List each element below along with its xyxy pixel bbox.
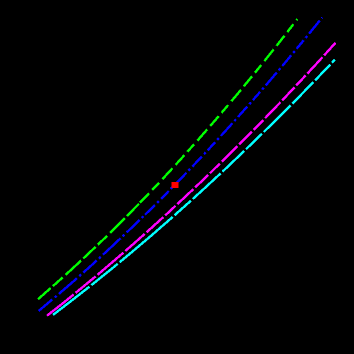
blue dash-dot model curve (upper segment): [145, 18, 322, 215]
red data point marker: [172, 182, 179, 188]
blue dash-dot model curve (lower segment): [39, 215, 145, 311]
green dashed model curve (lower segment): [38, 203, 140, 300]
cyan long-dash model curve (upper segment): [150, 60, 335, 237]
magenta dashed model curve (lower segment): [47, 229, 150, 316]
magenta dashed model curve (upper segment): [150, 43, 336, 229]
green dashed model curve (upper segment): [140, 19, 297, 203]
cyan long-dash model curve (lower segment): [53, 237, 150, 315]
